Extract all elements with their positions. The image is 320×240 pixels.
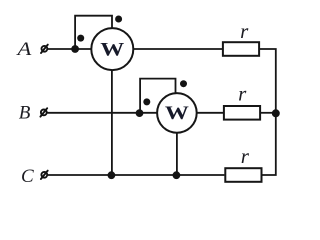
svg-text:r: r <box>238 82 247 106</box>
svg-text:W: W <box>165 103 189 124</box>
svg-text:r: r <box>241 144 250 168</box>
svg-text:r: r <box>240 19 249 43</box>
svg-text:W: W <box>100 39 124 60</box>
svg-text:B: B <box>19 102 31 123</box>
svg-text:C: C <box>21 166 34 187</box>
svg-text:A: A <box>15 39 32 60</box>
